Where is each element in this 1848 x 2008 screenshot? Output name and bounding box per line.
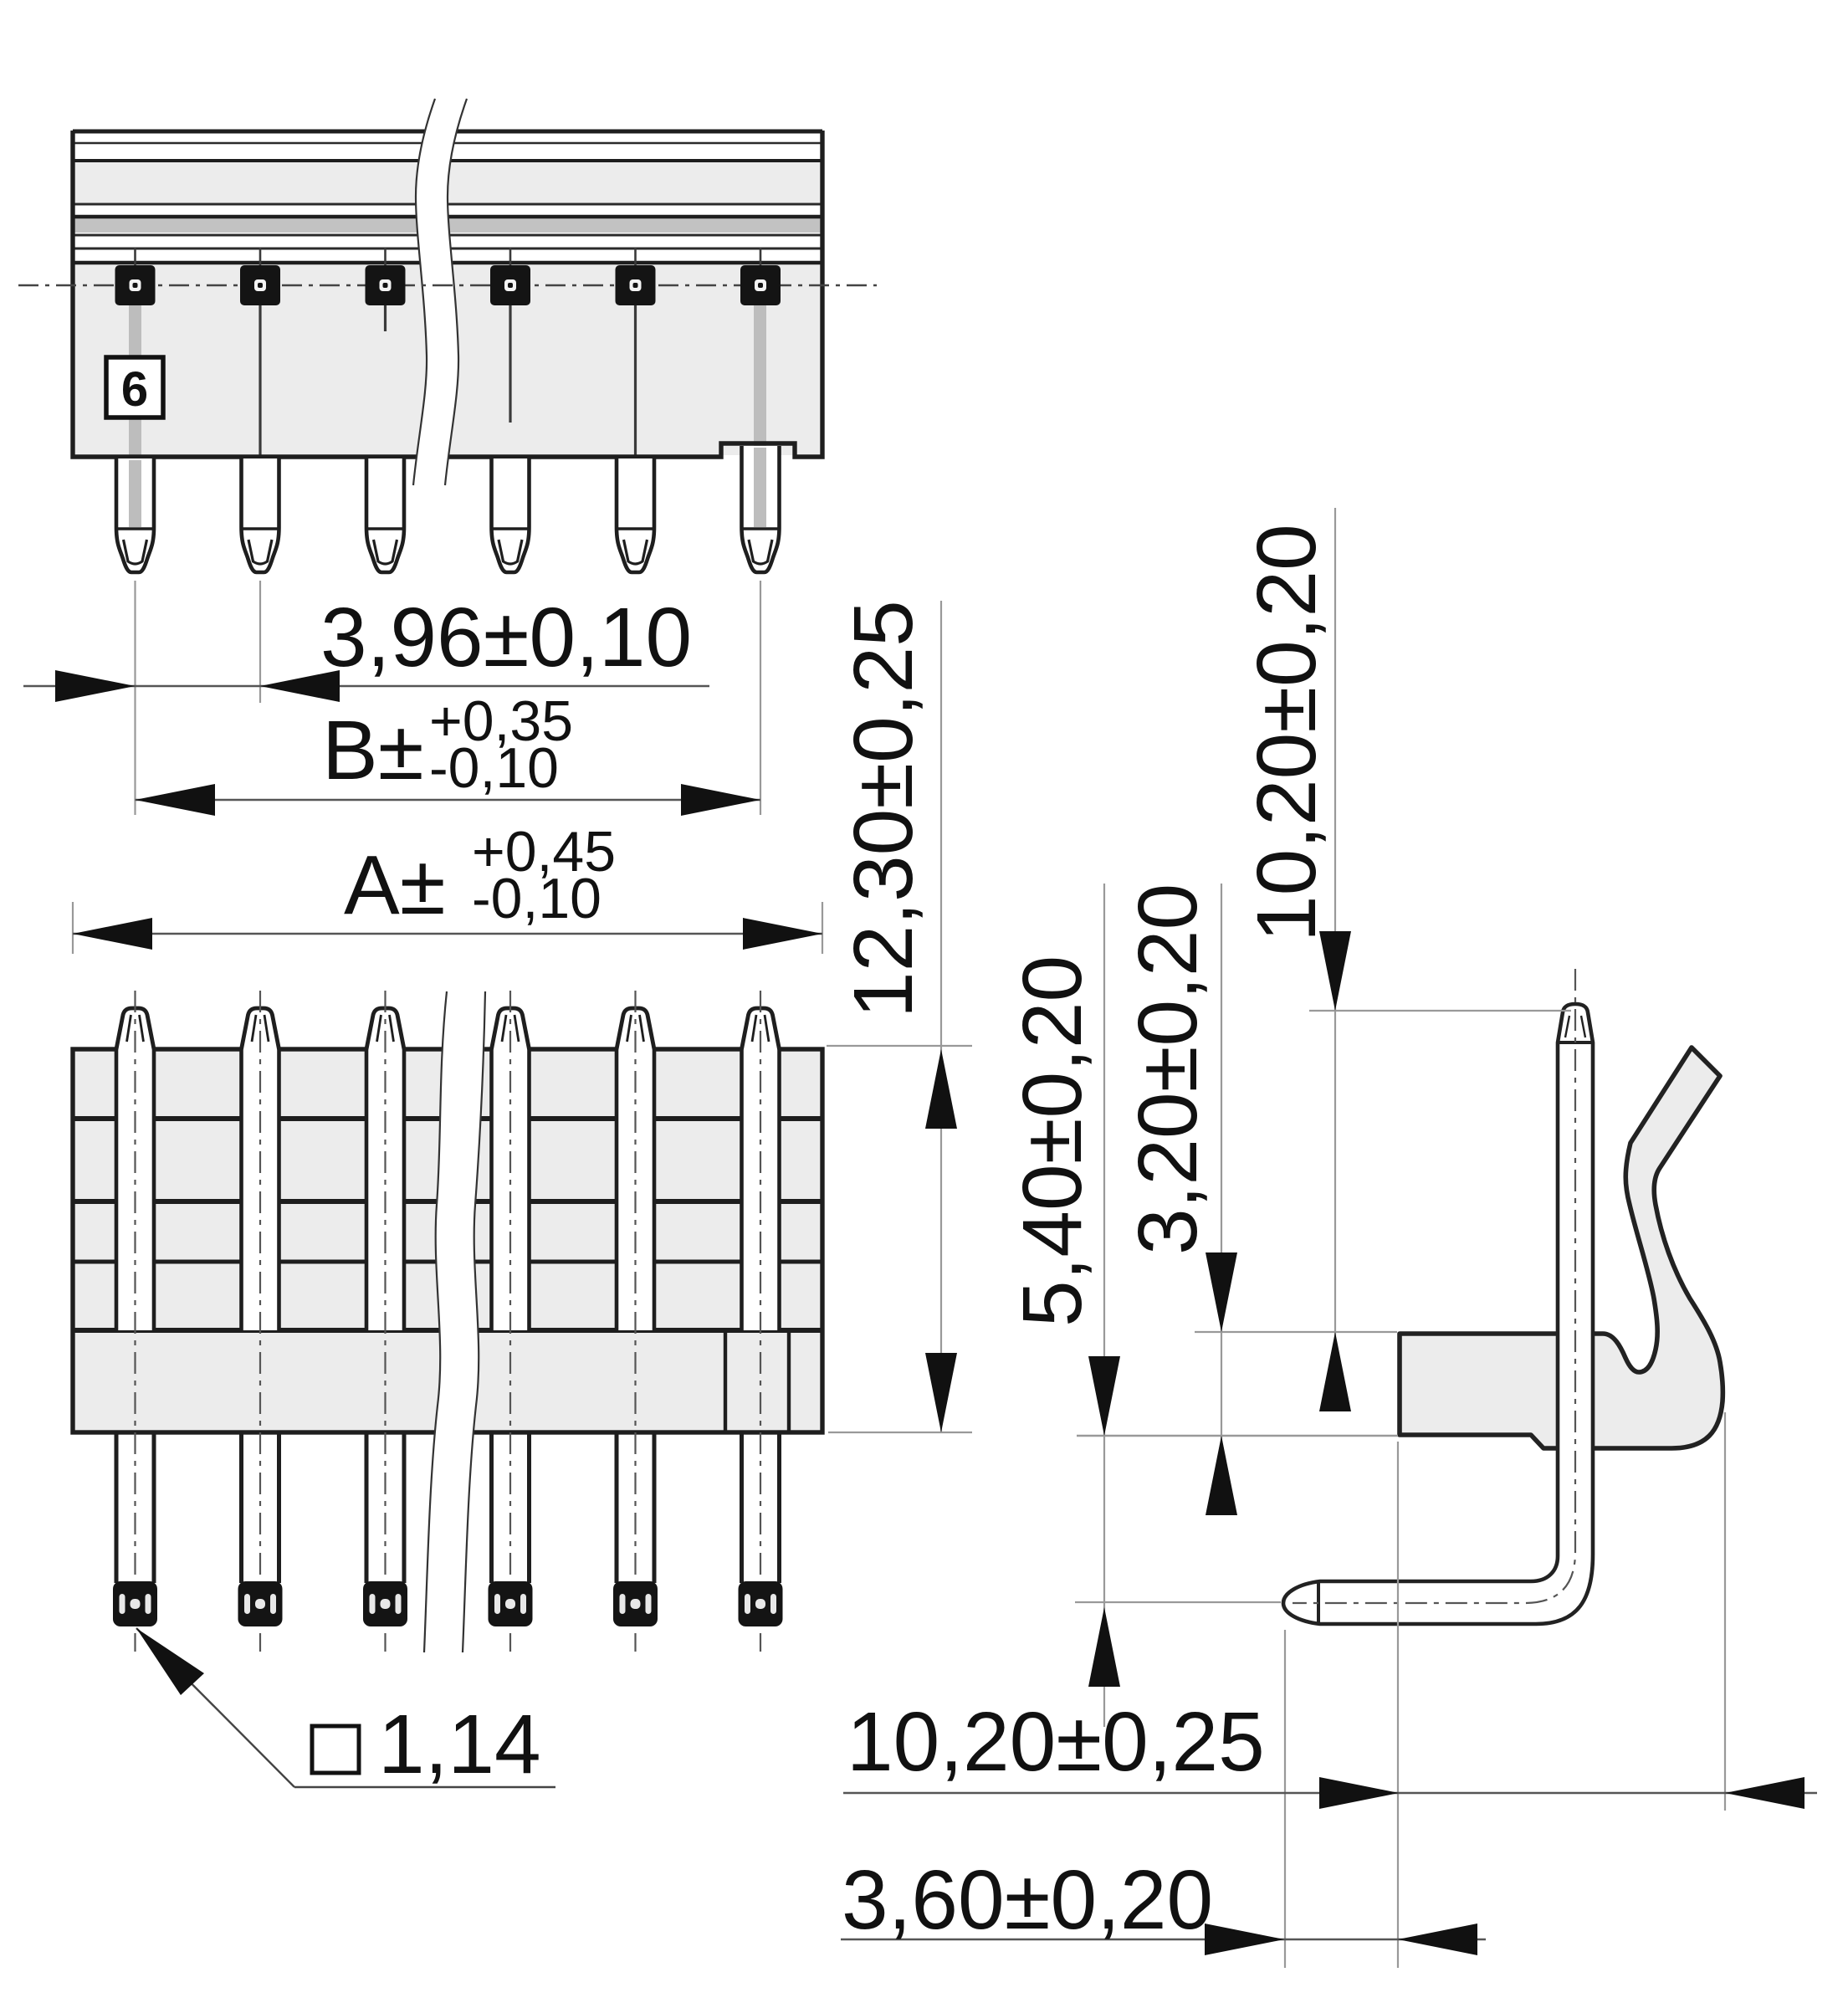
dimension 3,60 arrows — [1205, 1923, 1284, 1955]
svg-text:1,14: 1,14 — [378, 1698, 541, 1791]
dimension 3,20 vertical line — [1221, 884, 1222, 1506]
pin5 shaft line — [634, 305, 637, 455]
dimension 10,20 bottom arrows — [1319, 1777, 1399, 1809]
leg tip chamfer line — [1317, 1581, 1320, 1624]
svg-text:3,96±0,10: 3,96±0,10 — [320, 591, 692, 684]
front break band white fill — [424, 991, 485, 1652]
svg-text:A±: A± — [344, 838, 446, 932]
pin P1 tip — [116, 458, 154, 572]
side extension pin tip level — [1309, 1010, 1571, 1012]
dimension 3,20 arrows — [1206, 1252, 1237, 1332]
front pin P5 — [613, 991, 658, 1652]
extension line body left — [72, 902, 74, 954]
body groove line 3 — [74, 203, 821, 206]
SECTION: SIDE VIEW — [1283, 969, 1723, 1624]
center line of pad row — [18, 284, 877, 286]
front break line right — [463, 991, 485, 1652]
break line right — [445, 99, 467, 485]
pin P4 tip — [492, 458, 530, 572]
body groove line 5 — [74, 234, 821, 237]
front pin P3 — [363, 991, 407, 1652]
svg-text:10,20±0,20: 10,20±0,20 — [1240, 524, 1334, 942]
front pin P6 — [739, 991, 783, 1652]
top view solder pins below body — [116, 446, 780, 572]
dimension 12,30 arrows — [925, 1049, 957, 1129]
right-angle pin (vertical post and horizontal leg) — [1283, 1004, 1593, 1624]
dimension 12,30 line — [940, 601, 942, 1432]
body groove line 1 — [74, 142, 821, 144]
front break lines — [424, 991, 485, 1652]
dimension A arrows — [73, 918, 152, 950]
dimension 5,40 vertical line — [1103, 884, 1105, 1727]
front pin P4 — [489, 991, 533, 1652]
body groove line 6 — [74, 248, 821, 250]
front view pins — [113, 991, 783, 1652]
svg-text:10,20±0,25: 10,20±0,25 — [847, 1695, 1265, 1789]
side extension body top level — [1195, 1331, 1397, 1333]
front break line left — [424, 991, 447, 1652]
pin3 shaft stub — [384, 305, 386, 331]
break lines of top view — [18, 99, 877, 485]
extension line front top right — [827, 1045, 972, 1047]
dimension 3,96 arrows — [55, 670, 136, 702]
side extension seating plane — [1077, 1435, 1398, 1437]
body groove line 4 — [74, 215, 821, 219]
extension line side body left — [1397, 1442, 1399, 1968]
pin P2 tip — [242, 458, 279, 572]
dimension A line — [73, 933, 822, 935]
svg-text:-0,10: -0,10 — [429, 736, 559, 800]
row line 1 — [74, 1116, 821, 1121]
svg-text:5,40±0,20: 5,40±0,20 — [1006, 955, 1099, 1327]
body outline with notch at pin 6 — [73, 131, 822, 457]
base notch line right — [787, 1333, 791, 1431]
dimension B line — [136, 799, 761, 801]
dimension 10,20 arrows — [1319, 931, 1351, 1011]
dimension 3,60 line — [841, 1939, 1486, 1940]
front body outline — [73, 1049, 822, 1432]
pin P6 tip — [742, 446, 780, 572]
pin4 shaft line — [509, 305, 511, 423]
body groove line 7 — [74, 261, 821, 265]
pin P5 tip — [617, 458, 654, 572]
dimension 10,20 vertical line — [1334, 508, 1336, 1332]
extension line pin1 — [134, 581, 136, 815]
row line 2 — [74, 1199, 821, 1204]
front body fill — [73, 1049, 822, 1432]
SECTION: DIMENSIONS — [23, 508, 1817, 1968]
pin P3 tip — [366, 458, 404, 572]
connector body J1 top-view fill — [73, 131, 822, 457]
pin center line — [1293, 969, 1575, 1603]
extension line body right — [822, 902, 823, 954]
leader arrow for square pin size — [136, 1628, 294, 1787]
front pin P2 — [238, 991, 283, 1652]
side body with retention hook — [1400, 1048, 1723, 1448]
side extension leg axis — [1075, 1601, 1281, 1603]
dimension 3,96 line — [23, 685, 709, 687]
svg-text:3,60±0,20: 3,60±0,20 — [842, 1853, 1213, 1947]
front pin P1 — [113, 991, 157, 1652]
square symbol — [312, 1726, 359, 1773]
SECTION: FRONT VIEW — [73, 1049, 822, 1432]
svg-text:B±: B± — [322, 704, 424, 797]
pin6 shaft seen in body — [754, 305, 766, 446]
pin2 shaft line — [259, 305, 261, 455]
extension line hook right — [1724, 1412, 1726, 1811]
SECTION: TOP VIEW — [73, 131, 822, 457]
contact pads — [115, 265, 781, 305]
svg-text:12,30±0,25: 12,30±0,25 — [837, 600, 930, 1018]
pin upper stubs to groove — [136, 248, 761, 266]
svg-text:3,20±0,20: 3,20±0,20 — [1121, 884, 1215, 1255]
dimension B arrows — [136, 784, 216, 816]
pin 1 marking box — [106, 357, 163, 417]
break band white fill — [413, 99, 467, 485]
base notch line left — [724, 1333, 727, 1431]
extension line pin2 — [259, 581, 261, 703]
pin1 shaft seen in body — [129, 305, 141, 457]
break line left — [413, 99, 435, 485]
extension line leg tip — [1284, 1630, 1286, 1968]
body groove line 2 — [74, 159, 821, 162]
dimension 5,40 arrows — [1088, 1356, 1120, 1436]
extension line front bottom right — [828, 1432, 972, 1433]
row line 3 — [74, 1260, 821, 1264]
base top line — [74, 1328, 821, 1333]
body top edge — [73, 130, 822, 134]
dimension 10,20 bottom line — [843, 1792, 1817, 1794]
pin tip chamfer marks — [1565, 1016, 1569, 1037]
svg-text:-0,10: -0,10 — [472, 867, 601, 930]
extension line pin6 — [760, 581, 761, 815]
svg-text:6: 6 — [121, 362, 148, 417]
pin tip base line — [1558, 1041, 1593, 1044]
